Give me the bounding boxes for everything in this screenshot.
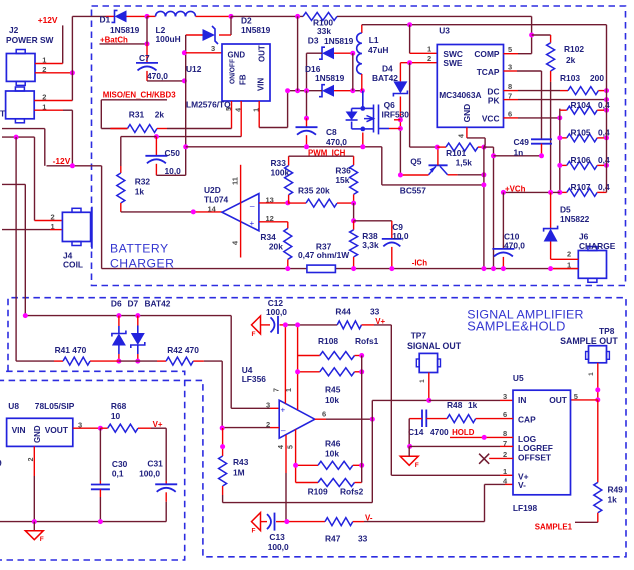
diode D2 [203,29,216,41]
wire C49 bottom [541,144,543,156]
wire feeder to J4 pin2 and D6/D7 bottom rail [2,136,35,138]
svg-text:1N5819: 1N5819 [324,36,354,46]
svg-text:OUT: OUT [549,395,568,405]
wire pin2 net down to Q5 base row [409,63,411,147]
svg-text:1M: 1M [233,468,245,478]
wire feeder to top sample rail [2,183,25,185]
svg-text:1k: 1k [135,187,145,197]
wire feedback loop down [371,419,373,502]
svg-text:D7: D7 [128,299,139,309]
resistor R32 [120,166,122,173]
wire D2 anode to main vertical [186,34,203,36]
node C12 row junctions [283,322,288,327]
svg-text:ON/OFF: ON/OFF [228,59,237,84]
resistor R48 [447,415,476,423]
svg-text:LF356: LF356 [242,374,267,384]
svg-text:470,0: 470,0 [326,137,347,147]
wire J2 pin2 to battery node [35,72,72,74]
resistor R103 [568,87,598,95]
capacitor C8 [306,118,308,127]
wire LOG row (HOLD) [450,436,513,438]
svg-text:3,3k: 3,3k [362,240,379,250]
node BC557 rail junction [481,182,486,187]
svg-text:+: + [281,406,286,415]
resistor R105 [560,137,567,139]
svg-text:0,47 ohm/1W: 0,47 ohm/1W [298,250,349,260]
testpoint TP8 [589,346,607,363]
ground flag at C13 [252,513,261,531]
svg-text:TP8: TP8 [599,326,615,336]
node pin13 junction [285,200,290,205]
node pin2/R43 junction [220,426,225,431]
svg-text:100,0: 100,0 [139,469,160,479]
svg-text:R42 470: R42 470 [167,345,199,355]
svg-text:U5: U5 [513,373,524,383]
resistor R100 [303,12,337,20]
wire feedback right vertical upper [361,356,363,420]
node HOLD junction [482,435,487,440]
resistor R102 [547,43,555,71]
svg-text:F: F [252,331,256,338]
svg-text:1N5819: 1N5819 [315,73,345,83]
wire U12 pin4 (FB) down-left [240,101,242,137]
svg-text:C7: C7 [139,53,150,63]
svg-text:F: F [252,528,256,535]
svg-text:F: F [415,462,419,469]
wire sample top rail [25,315,231,317]
svg-text:-ICh: -ICh [412,259,428,268]
svg-text:3: 3 [266,401,270,410]
wire U4 pin7 power [284,325,286,404]
svg-text:_: _ [280,423,286,432]
svg-text:R48: R48 [447,400,463,410]
wire C13 to R47 [276,521,287,523]
wire J2 lower pin1 down to -12V node [34,109,63,111]
svg-text:33k: 33k [317,26,331,36]
capacitor C49 [531,138,552,140]
ground flag at C12 [252,316,261,334]
svg-text:R107: R107 [571,182,591,192]
svg-text:4: 4 [278,445,285,449]
svg-text:47uH: 47uH [368,45,388,55]
svg-text:5: 5 [508,45,512,54]
wire C12 to V+ row [280,324,286,326]
svg-text:GND: GND [33,425,42,443]
svg-text:TCAP: TCAP [477,67,500,77]
wire U3 DC pin8 row [504,90,519,92]
svg-text:MC34063A: MC34063A [439,90,481,100]
svg-text:100,0: 100,0 [268,542,289,552]
node C8 top junction [304,116,309,121]
svg-text:R106: R106 [571,155,591,165]
wire D3 anode vertical [352,53,354,90]
wire D3 row [307,52,323,54]
node L1 top junction [407,22,412,27]
node D3 anode junction [350,51,355,56]
svg-text:6: 6 [322,410,326,419]
node U2D output junction [191,209,196,214]
node R38 bottom junction [351,266,356,271]
wire U4 output [315,418,326,420]
svg-text:5: 5 [288,445,295,449]
wire U3 TCAP pin3 to C49 [504,70,518,72]
wire +12V stub to J2 pin1 [62,25,64,63]
node -12V junction [70,163,75,168]
svg-text:J2: J2 [9,25,19,35]
node R46 junctions [293,463,298,468]
wire D16 row [288,90,322,92]
svg-text:BAT42: BAT42 [372,73,398,83]
diode D1 [112,10,118,22]
node pin2 junction [407,60,412,65]
svg-text:3: 3 [503,392,507,401]
wire TP8 pin down [597,363,599,400]
node TP7 junction [426,398,431,403]
wire pin3 feed [230,316,232,409]
svg-text:10k: 10k [325,395,339,405]
IC U12 body [222,44,270,101]
svg-text:1N5819: 1N5819 [241,25,271,35]
node output junction [370,417,375,422]
svg-text:4: 4 [459,134,466,138]
capacitor C30 [99,428,101,481]
svg-text:C50: C50 [165,148,181,158]
wire D2 node down [230,16,232,35]
svg-text:L1: L1 [369,35,379,45]
svg-text:33: 33 [370,307,380,317]
node C10 bottom junction [501,266,506,271]
node rail junction at 297.6 [295,14,300,19]
svg-text:F: F [40,536,44,543]
wire D4 bottom vertical [399,97,401,120]
connector J2 lower body [6,91,35,119]
node C49 return junction [491,153,496,158]
svg-text:1: 1 [588,372,595,376]
svg-text:R44: R44 [335,307,351,317]
node R45 junctions [295,369,300,374]
wire U8 pin2 down [33,446,35,476]
wire ladder right vertical [606,25,608,193]
testpoint TP7 [419,353,437,372]
svg-text:200: 200 [590,73,604,83]
svg-text:GND: GND [228,51,246,60]
op-amp U4 [279,400,315,438]
wire Q5 collector row [448,174,458,176]
wire Q5 base up [437,147,439,165]
svg-text:10: 10 [111,411,121,421]
svg-text:D4: D4 [382,64,393,74]
svg-text:0,4: 0,4 [598,100,610,110]
wire U2D output row [121,211,194,213]
svg-text:R105: R105 [571,128,591,138]
wire -ICh rail [102,268,307,270]
svg-text:C8: C8 [326,127,337,137]
svg-text:1: 1 [427,45,431,54]
svg-text:COIL: COIL [63,260,83,270]
wire U2D power pins [240,165,242,258]
svg-text:D6: D6 [111,299,122,309]
node +BatCh junction [145,41,150,46]
wire U8 ground rail [0,521,166,523]
ground flag U8 [33,522,35,531]
svg-text:11: 11 [231,177,240,185]
node PWM rail start junction [183,144,188,149]
svg-text:1N5819: 1N5819 [110,25,140,35]
capacitor C31 [155,483,177,485]
node D7 bottom junction [135,359,140,364]
svg-text:R103: R103 [560,73,580,83]
svg-text:R101: R101 [446,148,466,158]
svg-text:IN: IN [518,395,526,405]
svg-text:MISO/EN_CH/KBD3: MISO/EN_CH/KBD3 [103,91,176,100]
svg-text:-12V: -12V [53,156,71,166]
node D6 top junction [116,313,121,318]
resistor R37 (box) [307,265,336,272]
svg-text:R46: R46 [325,439,341,449]
svg-text:U8: U8 [8,401,19,411]
wire ladder left vertical [559,109,561,193]
wire C14 left [409,418,422,420]
wire SAMPLE1 stub [575,521,598,523]
node R104 right junction [604,108,609,113]
diode D3 [319,47,325,59]
svg-text:3: 3 [211,44,215,53]
svg-text:CHARGER: CHARGER [110,256,174,270]
resistor R107 [560,191,567,193]
svg-text:100uH: 100uH [156,34,181,44]
svg-text:10,0: 10,0 [165,166,182,176]
wire J2 lower pin2 up to battery node [34,100,72,102]
svg-text:R31: R31 [129,110,145,120]
wire feedback right vertical lower [361,419,363,482]
wire L2 to D2 node [196,15,232,17]
resistor R35 [288,202,306,204]
wire U4 pin1 offset [297,325,299,372]
wire Q5 emitter row [400,174,428,176]
wire TP7 pin [428,373,430,401]
resistor R38 [353,221,355,230]
node R108 junctions [359,353,364,358]
wire L1 top rail [362,24,607,26]
svg-text:1k: 1k [468,400,478,410]
capacitor C50 [155,137,157,156]
wire C49 return [484,146,494,148]
wire R102 bottom down to +VCh [550,71,552,82]
svg-text:10k: 10k [325,449,339,459]
node Q5 collector junction [481,172,486,177]
svg-text:3: 3 [508,63,512,72]
node R35 right junction [351,201,356,206]
capacitor C13 [274,513,276,531]
node C7-gnd junction [182,78,187,83]
resistor R49 [594,482,602,512]
svg-text:0,4: 0,4 [598,182,610,192]
wire top rail to R100 [231,15,303,17]
wire R101 node down to -ICh [483,147,485,269]
node feeder junction [14,135,19,140]
wire BatCh node to L2 [147,15,156,17]
wire PWM_ICH net [289,155,354,157]
svg-text:CHARGE: CHARGE [579,241,616,251]
svg-text:R35 20k: R35 20k [298,186,330,196]
svg-text:SAMPLE&HOLD: SAMPLE&HOLD [467,319,565,334]
wire C50 junction to R32 [121,136,157,138]
wire top rail left of D1 [72,15,106,17]
svg-text:HOLD: HOLD [452,428,475,437]
svg-text:20k: 20k [269,241,283,251]
diode D5 [550,192,552,228]
svg-text:1N5822: 1N5822 [560,214,590,224]
node R105 junctions [557,135,562,140]
svg-text:TP7: TP7 [411,331,427,341]
svg-text:+12V: +12V [38,15,58,25]
svg-text:78L05/SIP: 78L05/SIP [35,401,75,411]
svg-text:OFFSET: OFFSET [518,453,552,463]
svg-text:100,0: 100,0 [266,307,287,317]
svg-text:+: + [250,219,255,228]
node C8 bottom junction [304,144,309,149]
connector J4 body [62,212,90,241]
wire U3 PK pin7 row [504,99,519,101]
diode D16 [319,85,325,97]
wire LOGREF row [410,445,500,447]
wire C8 feed [306,91,308,119]
wire U3 COMP pin5 [504,53,519,55]
wire U3 GND pin4 down [466,127,468,138]
svg-text:C49: C49 [514,137,530,147]
resistor R42 [166,357,193,365]
diode D4 [393,81,407,93]
wire U12 pin5 (ON/OFF) down-left [231,101,233,129]
svg-text:Rofs1: Rofs1 [355,336,379,346]
svg-text:R102: R102 [564,44,584,54]
wire U3 VCC pin6 row [504,117,519,119]
svg-text:VIN: VIN [12,425,26,435]
wire U4 pin5 offset [295,429,297,465]
connector J2 upper body [6,54,35,82]
wire battery node up to D1 row [71,16,73,72]
svg-text:1,5k: 1,5k [456,158,473,168]
inductor L1 [361,25,363,33]
svg-text:14: 14 [208,205,217,214]
svg-text:1: 1 [503,467,507,476]
node R101 right junction [481,145,486,150]
svg-text:R43: R43 [233,457,249,467]
node D4 net junctions [398,117,403,122]
wire U2D pin12 to R34 [259,221,288,223]
IC U5 body [513,390,571,495]
wire R42 to pin2 node [221,361,223,428]
svg-text:Q6: Q6 [384,100,396,110]
svg-text:IRF530: IRF530 [382,110,410,120]
svg-text:LOGREF: LOGREF [518,443,553,453]
node L2 right junction [229,14,234,19]
node C14 gnd junction [407,444,412,449]
svg-text:5: 5 [574,392,578,401]
node Q5 base junction [435,145,440,150]
node TP8 junctions [595,387,600,392]
wire C7 bottom to GND rail [146,71,148,81]
svg-text:33: 33 [358,534,368,544]
node VCC junction [557,115,562,120]
wire U3 pin2 feed [400,62,437,64]
wire U12 pin1 (VIN) down-right [258,101,260,128]
svg-text:OUT: OUT [258,45,267,62]
svg-text:SIGNAL OUT: SIGNAL OUT [407,341,462,351]
svg-text:TL074: TL074 [204,195,229,205]
svg-text:2: 2 [427,54,431,63]
wire U3 pin1 feed [409,25,411,54]
svg-text:Rofs2: Rofs2 [340,487,364,497]
svg-text:VOUT: VOUT [45,425,69,435]
wire U4 pin4 power [285,435,287,473]
svg-text:_: _ [249,198,255,207]
wire U5 OUT stub [571,399,598,401]
capacitor C7 [136,62,158,64]
svg-text:SWE: SWE [443,58,462,68]
node Q5 emitter junction [398,173,403,178]
svg-text:+BatCh: +BatCh [100,35,128,44]
wire D1 to BatCh node [127,15,148,17]
svg-text:10,0: 10,0 [392,231,409,241]
svg-text:BC557: BC557 [400,186,426,196]
svg-text:V-: V- [518,480,526,490]
svg-text:SAMPLE1: SAMPLE1 [535,523,573,532]
svg-text:470,0: 470,0 [504,241,525,251]
node D16 row junctions [285,88,290,93]
capacitor C12 [277,316,279,334]
svg-text:R36: R36 [335,166,351,176]
op-amp U2D [222,194,259,231]
resistor R46 [296,464,318,466]
resistor R43 [222,428,224,456]
node pin3 junction [182,50,187,55]
node U8 out junction [98,426,103,431]
svg-text:LM2576/TQ: LM2576/TQ [186,100,231,110]
wire main vertical (U12 gnd net) [185,35,187,147]
wire C14 right to R48 [426,418,447,420]
IC U3 body [437,45,503,128]
resistor R45 [298,371,320,373]
diode D7 [137,316,139,326]
node sample rail corner [23,313,28,318]
wire J4 pin2 stub [35,220,62,222]
IC U8 body [7,418,73,446]
wire D3 cathode down [306,53,308,90]
svg-text:U12: U12 [186,64,202,74]
capacitor C10 [502,192,504,249]
wire C8/Q6 rail [186,146,382,148]
resistor R101 [437,146,446,148]
svg-text:R45: R45 [325,385,341,395]
svg-text:VIN: VIN [257,78,266,91]
svg-text:R32: R32 [135,177,151,187]
resistor R68 [100,427,107,429]
wire branch to C9 [354,220,392,222]
resistor R31 [128,125,158,133]
diode D6 [118,316,120,326]
wire C50 bottom loop [155,164,157,176]
svg-text:2: 2 [503,450,507,459]
resistor R41 [63,357,90,365]
node D6 bottom junction [116,359,121,364]
wire U12 pin3 stub [186,52,222,54]
wire V- row to U5 [364,521,485,523]
node COMP junction [529,33,534,38]
svg-text:R47: R47 [325,534,341,544]
connector J6 body [578,251,606,279]
resistor R104 [567,106,597,114]
